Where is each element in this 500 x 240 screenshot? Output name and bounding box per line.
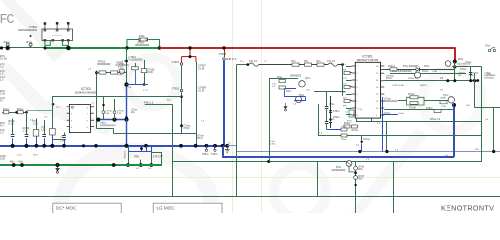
svg-text:4.0: 4.0 [0,125,4,128]
svg-text:0.0: 0.0 [356,145,360,147]
svg-text:L/7001: L/7001 [129,56,137,59]
green h y133.5 [114,133,197,135]
blue routing in cluster [284,89,305,97]
svg-text:D7xx 0(0N000): D7xx 0(0N000) [403,66,419,68]
svg-text:0.1: 0.1 [136,168,140,170]
svg-text:R0x: R0x [359,169,364,171]
svg-text:C7xx: C7xx [329,104,335,106]
svg-text:C7x00: C7x00 [118,69,125,71]
svg-text:0(0NN00000): 0(0NN00000) [332,170,346,172]
svg-text:0600NN0000: 0600NN0000 [135,44,150,47]
svg-text:(0(p)0N00000: (0(p)0N00000 [457,64,471,66]
wire: IT002 pin to bus (right pair) [63,41,69,48]
svg-text:0.1: 0.1 [440,90,444,92]
svg-text:DC* MOC: DC* MOC [56,206,77,211]
extra micro labels [17,61,496,170]
junction dots on H2 [11,144,15,148]
ST0xx connector stubs below bus [202,146,218,156]
fold line vertical 1 (pale yellow) [232,0,234,213]
svg-text:R7xxx: R7xxx [386,78,393,80]
IC7301 left side components [343,67,352,115]
cap stub bank to blue bus [9,119,16,146]
svg-text:ST0000: ST0000 [123,151,125,159]
green h y128.4 under IC [97,128,114,130]
svg-text:R7x: R7x [343,106,348,108]
diode D7xx a [354,166,358,170]
watermark ring bottom-middle [274,166,326,218]
IC7301 body [355,62,380,118]
svg-text:1 1.0: 1 1.0 [143,90,149,92]
svg-text:1.00: 1.00 [0,93,5,96]
svg-text:R0.0: R0.0 [198,138,204,140]
svg-text:X7xx: X7xx [485,46,491,48]
svg-text:D7/(0: D7/(0 [118,66,124,68]
green v x103.5 upper [103,96,105,106]
IC7201 pins left [67,107,70,127]
svg-text:D7xxx: D7xxx [422,71,429,73]
svg-text:C75xx: C75xx [426,108,433,110]
svg-text:1.0: 1.0 [343,92,347,94]
svg-text:1.0: 1.0 [319,133,323,135]
svg-text:D73xx: D73xx [333,117,340,119]
blue v x382.3 [382,97,384,152]
svg-text:W1x: W1x [10,162,15,164]
green h y111 [384,109,454,111]
blue pin6 rail y119.6 [97,119,127,121]
connector W1 circle 2 [6,43,9,46]
wire: IT002 pin to bus (left pair) [45,41,50,48]
IC7201 pins right [90,107,94,127]
blue elbow to C7005 box [127,70,136,85]
IC7301 pins left [352,66,356,115]
svg-text:1.0: 1.0 [201,121,205,123]
zener chain x330 [330,96,332,107]
enclosure bottom stub [53,139,66,141]
svg-text:0.1: 0.1 [92,102,96,104]
svg-text:0.1: 0.1 [228,143,232,145]
connector circles L/7T [102,111,105,114]
svg-text:1.0: 1.0 [377,123,381,125]
svg-text:L7x: L7x [240,61,244,63]
svg-text:1.7: 1.7 [264,61,268,63]
svg-text:FT001: FT001 [172,61,180,64]
svg-text:D7x: D7x [118,75,123,77]
svg-text:R7xx: R7xx [299,95,305,97]
FT003 fuse tap at x224 (red to blue) [224,48,226,57]
green h y135.7 [318,135,482,137]
ground at end of blue bus [225,146,230,153]
svg-text:0(0N0: 0(0N0 [440,98,447,100]
neon cluster on H3 [346,161,352,167]
svg-text:0.1: 0.1 [345,112,349,114]
green h y104.3 [145,104,173,106]
svg-text:Q7xx: Q7xx [305,78,311,80]
svg-text:0.1 M: 0.1 M [198,67,204,70]
green h y91.5 [314,91,345,93]
svg-text:ST0xx: ST0xx [211,154,218,156]
green v x236.5 [236,65,238,197]
wire FT001-FT002 [181,66,183,89]
green h H3 y161.5 [172,161,482,163]
svg-text:1.0M: 1.0M [432,71,437,73]
row C y80.8 green long [384,80,478,82]
svg-text:R7x: R7x [466,105,471,107]
svg-text:R73xx: R73xx [344,123,351,125]
svg-text:R7xx: R7xx [347,121,353,123]
red bus drop right [454,47,456,62]
svg-text:W1x: W1x [19,162,24,164]
blue bus H2 [0,145,227,147]
svg-text:C7310 0.0N: C7310 0.0N [392,85,404,87]
svg-text:R7xxx 1.0: R7xxx 1.0 [430,119,441,121]
R7xxx stub to slate line [361,136,363,141]
svg-text:FT002: FT002 [172,88,180,91]
svg-text:1.0: 1.0 [88,69,92,71]
svg-text:(N)0NN0A0: (N)0NN0A0 [484,74,496,77]
svg-text:C75x: C75x [441,106,447,108]
svg-text:R7x: R7x [317,61,322,63]
svg-text:KΞNOTRONTV: KΞNOTRONTV [441,204,494,213]
svg-text:R7312: R7312 [388,66,395,68]
svg-text:TRD: TRD [134,156,139,159]
green v x96 [96,71,98,129]
connector FT002 [180,89,183,92]
svg-text:0 1.00: 0 1.00 [0,58,7,61]
connector W1 circle [29,43,32,46]
green v x493.7 [493,108,495,152]
component chain y64.6 [237,64,248,66]
svg-text:0.00: 0.00 [0,158,5,161]
connector FT001 [180,63,183,66]
long green v x172.4 [172,104,174,196]
svg-text:R73xx: R73xx [352,130,359,132]
svg-text:1/F1: 1/F1 [105,113,110,115]
green h y112.3 with R boxes [2,112,27,114]
svg-text:0(0N00): 0(0N00) [386,76,394,78]
IC7301 pin numbers [357,66,380,117]
svg-text:(0N0000000): (0N0000000) [97,64,111,66]
svg-text:0600NN0000: 0600NN0000 [384,101,398,103]
svg-text:FC: FC [0,13,14,28]
diode D7xx b [354,176,358,180]
svg-text:0.5 M: 0.5 M [184,128,190,130]
svg-text:R7xx: R7xx [277,77,283,79]
svg-text:R7x: R7x [343,98,348,100]
svg-text:0.0(0: 0.0(0 [148,72,154,74]
watermark band bottom-right diagonal [350,128,428,213]
svg-text:R7xx 0(0NN00000): R7xx 0(0NN00000) [392,71,412,73]
svg-text:F001: F001 [139,35,145,38]
svg-text:R7012: R7012 [98,61,106,64]
svg-text:R7x: R7x [292,61,297,63]
ground mid [284,103,287,111]
transistor Q7xxB [295,96,301,102]
svg-text:C7xxx: C7xxx [460,69,467,71]
svg-text:4.7: 4.7 [0,100,4,103]
blue v x126.5 [126,61,128,84]
svg-text:R7313: R7313 [420,85,427,87]
svg-text:0 1.0: 0 1.0 [17,154,23,156]
row A y69.4 black [384,69,452,71]
X7xx crystal top right [488,47,496,51]
svg-text:1.0: 1.0 [272,86,276,88]
fuse F001 symbol on loop top [139,38,148,41]
svg-text:0.7000: 0.7000 [460,66,467,68]
transistor Q7xxA [299,81,305,87]
svg-text:R7xxx: R7xxx [3,109,10,111]
blue h y115 [383,114,398,116]
svg-text:S/T0: S/T0 [33,154,38,156]
red joint dot [453,60,457,64]
fold line horizontal [0,177,500,179]
green v x386.9 [386,121,388,152]
svg-text:R7x: R7x [475,149,480,151]
svg-text:C7xxx: C7xxx [384,113,391,115]
svg-text:0.0: 0.0 [440,78,444,80]
green bus H4 left bottom [0,164,162,166]
svg-text:LG MOC: LG MOC [157,206,176,211]
IC7201 body [69,104,90,132]
svg-text:040NA00004W: 040NA00004W [18,28,37,32]
svg-text:0(0NN000: 0(0NN000 [484,78,495,80]
red bus H1 right [160,47,455,49]
svg-text:1.0: 1.0 [485,119,489,121]
IC IT002 (top-left 5-pin module) [42,22,73,41]
small boxes left of Q [279,80,286,83]
svg-text:R7315 1.0: R7315 1.0 [408,78,419,80]
red tap at x190 [182,48,197,62]
svg-text:0(0NN0000000): 0(0NN0000000) [100,125,116,127]
svg-text:C7x 1.5: C7x 1.5 [249,61,258,63]
svg-text:D73xx: D73xx [333,111,340,113]
thin slate jog wire [227,145,236,147]
box DC MOC [53,203,121,215]
watermark big swirl bottom-left [60,151,211,213]
green v x342.5 down from chain [342,65,344,96]
capacitor on v470.5 [469,74,472,76]
svg-text:10n: 10n [131,112,136,114]
svg-text:1 1.0: 1 1.0 [33,124,39,126]
svg-text:R7xx: R7xx [286,91,292,93]
R boxes at 344-357,125-131 [344,125,350,128]
svg-text:R7xx: R7xx [424,66,430,68]
svg-text:FT003: FT003 [219,53,227,56]
svg-text:AND LT F: AND LT F [226,58,237,61]
enclosure top h y78.5 [269,78,298,80]
watermark ring right [422,70,482,130]
svg-text:R7x: R7x [343,70,348,72]
svg-text:R7xxx: R7xxx [364,139,371,141]
warning triangle [29,34,32,36]
relay block below bus [123,146,163,167]
green v from bus x126.5 down [126,48,128,63]
svg-text:1.0: 1.0 [0,132,4,135]
neon column wire [355,162,357,167]
svg-text:060NAYY02735: 060NAYY02735 [357,58,379,62]
green v x326.6 with caps [326,92,328,107]
transistor near red joint [445,61,451,67]
svg-text:T/W: T/W [117,113,122,115]
svg-text:C/7/(0: C/7/(0 [118,64,125,66]
fold line vertical 2 [261,0,263,213]
green h y121.2 [356,121,482,123]
green bottom H5 y196.2 [0,196,500,198]
enclosure green left v x53 [52,103,55,106]
row B y73.2 green [390,73,466,75]
watermark ring center-left [127,57,177,107]
green v x317.5 (lower) [317,162,319,197]
green v x475 [474,73,476,108]
enclosure green top h y96 [53,96,182,98]
blue drop x224 to blue bus [223,61,225,146]
svg-text:R7/(0: R7/(0 [118,72,124,74]
svg-text:0.6(0N00000): 0.6(0N00000) [129,60,143,62]
green h y107.8 right [475,107,500,109]
wires loop to transistor [424,100,448,102]
junction dots on H1 [0,46,3,49]
ground symbol below H4 [56,165,59,173]
thick blue return path [222,146,224,157]
svg-text:R7xx: R7xx [341,139,347,141]
watermark diagonal band B [0,62,112,136]
svg-text:C7x: C7x [343,84,348,86]
svg-text:L/T0A6: L/T0A6 [471,72,479,75]
C7010 column x144 [144,60,146,69]
svg-text:R7x12: R7x12 [408,94,415,96]
svg-text:W1xx: W1xx [4,41,11,44]
svg-text:0.1 M: 0.1 M [198,89,204,92]
svg-text:1.0: 1.0 [0,79,4,82]
svg-text:R70x 1.0: R70x 1.0 [144,102,154,104]
small green rect 349-354 [349,110,354,117]
transistor Q bottom right [448,97,454,103]
enclosure left v x269.2 [269,79,271,162]
svg-text:1.0: 1.0 [293,104,297,106]
svg-text:0(0NN000): 0(0NN000) [290,76,301,78]
blue h y129.6 [327,129,343,131]
svg-text:1.0: 1.0 [343,64,347,66]
blue stub h near 453,108 [440,101,447,104]
svg-text:1.0: 1.0 [366,159,370,161]
blue h y84.5 [127,84,149,86]
svg-text:R0x: R0x [359,178,364,180]
svg-text:1 1.0: 1 1.0 [23,131,29,133]
svg-text:ST0xx: ST0xx [202,154,209,156]
svg-text:C7x 1.5: C7x 1.5 [327,61,336,63]
green bus H1 left [0,47,45,49]
svg-text:0 1.0: 0 1.0 [9,124,15,126]
transistor Q7201 [119,69,124,74]
green v x318 (upper) [318,104,320,136]
IC7301 pins right [381,66,385,115]
svg-text:R7x: R7x [304,61,309,63]
svg-text:C7xxx: C7xxx [398,113,405,115]
svg-text:Q7x: Q7x [306,90,311,92]
svg-text:W1xx: W1xx [26,41,33,44]
green loop w resistors [407,97,425,105]
svg-text:C7x: C7x [343,78,348,80]
svg-text:R7xx: R7xx [458,59,464,61]
svg-text:R7xxx: R7xxx [17,109,24,111]
svg-text:L/7xxx: L/7xxx [384,99,391,101]
box LG MOC [153,203,222,215]
H3 turn up at right [481,67,483,162]
fuse loop F001 [127,40,160,49]
wire FT002 down to green h [181,92,183,126]
svg-text:D00NNY00005B: D00NNY00005B [75,91,97,95]
svg-text:1.0: 1.0 [148,168,152,170]
green h y72.7 row with R boxes [96,72,127,74]
svg-text:1.0: 1.0 [44,117,48,119]
green v x393.7 bottom [393,162,395,214]
svg-text:0.47u: 0.47u [270,144,276,146]
C7007 capacitor column x196 [196,62,198,146]
